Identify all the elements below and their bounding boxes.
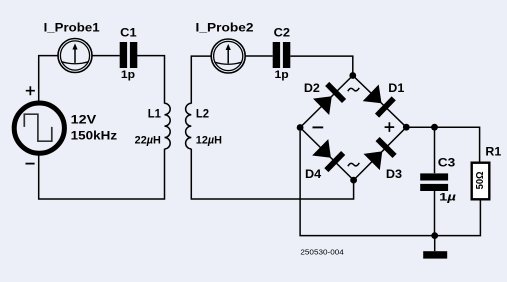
voltage source V1 12V 150kHz — [14, 103, 64, 153]
svg-text:I_Probe2: I_Probe2 — [196, 21, 254, 35]
minus terminal of source — [26, 163, 35, 165]
node right of bridge — [403, 124, 410, 131]
wire C3 top lead — [434, 127, 436, 173]
wire C3 bottom lead — [434, 191, 436, 236]
value label 12V 150kHz — [71, 112, 117, 142]
diode D2 — [313, 82, 346, 115]
svg-text:D2: D2 — [304, 81, 320, 95]
wire bridge minus down and along bottom to R1 bottom — [300, 131, 480, 236]
svg-text:C2: C2 — [274, 26, 291, 40]
AC tilde top — [348, 88, 359, 91]
svg-text:12V: 12V — [71, 112, 97, 126]
wire left-top from source to I_Probe1 — [39, 56, 58, 102]
bridge edge wire bottom-right — [354, 127, 407, 180]
junction node at ground rail — [431, 232, 438, 239]
svg-text:L1: L1 — [148, 107, 161, 121]
wire L2 bottom to bridge bottom node — [191, 149, 353, 199]
diode D1 — [362, 84, 395, 117]
svg-text:C1: C1 — [120, 26, 137, 40]
plus sign at bridge right node — [385, 122, 395, 132]
svg-text:50Ω: 50Ω — [474, 171, 486, 189]
capacitor C1 — [120, 42, 138, 68]
svg-text:I_Probe1: I_Probe1 — [44, 21, 100, 35]
wire I_Probe2 to C2 — [245, 55, 273, 57]
wire I_Probe1 to C1 — [92, 55, 120, 57]
capacitor C3 — [420, 173, 448, 191]
svg-text:1p: 1p — [121, 69, 136, 81]
svg-text:1µ: 1µ — [439, 192, 456, 204]
inductor L1 — [165, 103, 171, 149]
node bottom of bridge — [350, 177, 357, 184]
svg-text:D3: D3 — [386, 167, 403, 181]
plus terminal of source — [26, 86, 35, 95]
node top of bridge — [349, 72, 356, 79]
wire C2 to bridge top node — [290, 56, 353, 72]
node left of bridge — [297, 124, 304, 131]
ground — [423, 236, 447, 259]
inductor L2 — [186, 103, 192, 149]
svg-text:12µH: 12µH — [196, 135, 222, 147]
wire L2 top to I_Probe2 — [191, 56, 211, 104]
svg-text:D4: D4 — [305, 167, 322, 181]
svg-text:D1: D1 — [388, 81, 404, 95]
minus sign at bridge left node — [313, 126, 324, 128]
junction node at C3 top — [431, 124, 438, 131]
svg-text:1p: 1p — [275, 69, 290, 81]
svg-text:250530-004: 250530-004 — [300, 247, 343, 256]
svg-text:22µH: 22µH — [135, 135, 161, 147]
svg-text:150kHz: 150kHz — [71, 128, 117, 142]
AC tilde bottom — [348, 163, 359, 166]
svg-text:L2: L2 — [196, 107, 209, 121]
diode D4 — [312, 139, 345, 172]
wire bridge plus to R1 top — [406, 127, 479, 161]
current probe I_Probe2 — [211, 39, 245, 73]
svg-text:R1: R1 — [485, 144, 501, 158]
bridge edge wire top-left — [300, 76, 353, 128]
wire L1 bottom along bottom rail to source minus — [39, 149, 165, 199]
bridge edge wire top-right — [353, 76, 407, 128]
bridge edge wire bottom-left — [300, 128, 354, 181]
wire C1 to L1 top — [137, 56, 164, 104]
resistor R1 — [472, 163, 490, 200]
capacitor C2 — [273, 42, 291, 68]
svg-text:C3: C3 — [438, 155, 456, 169]
diode D3 — [363, 137, 396, 170]
current probe I_Probe1 — [58, 39, 92, 73]
